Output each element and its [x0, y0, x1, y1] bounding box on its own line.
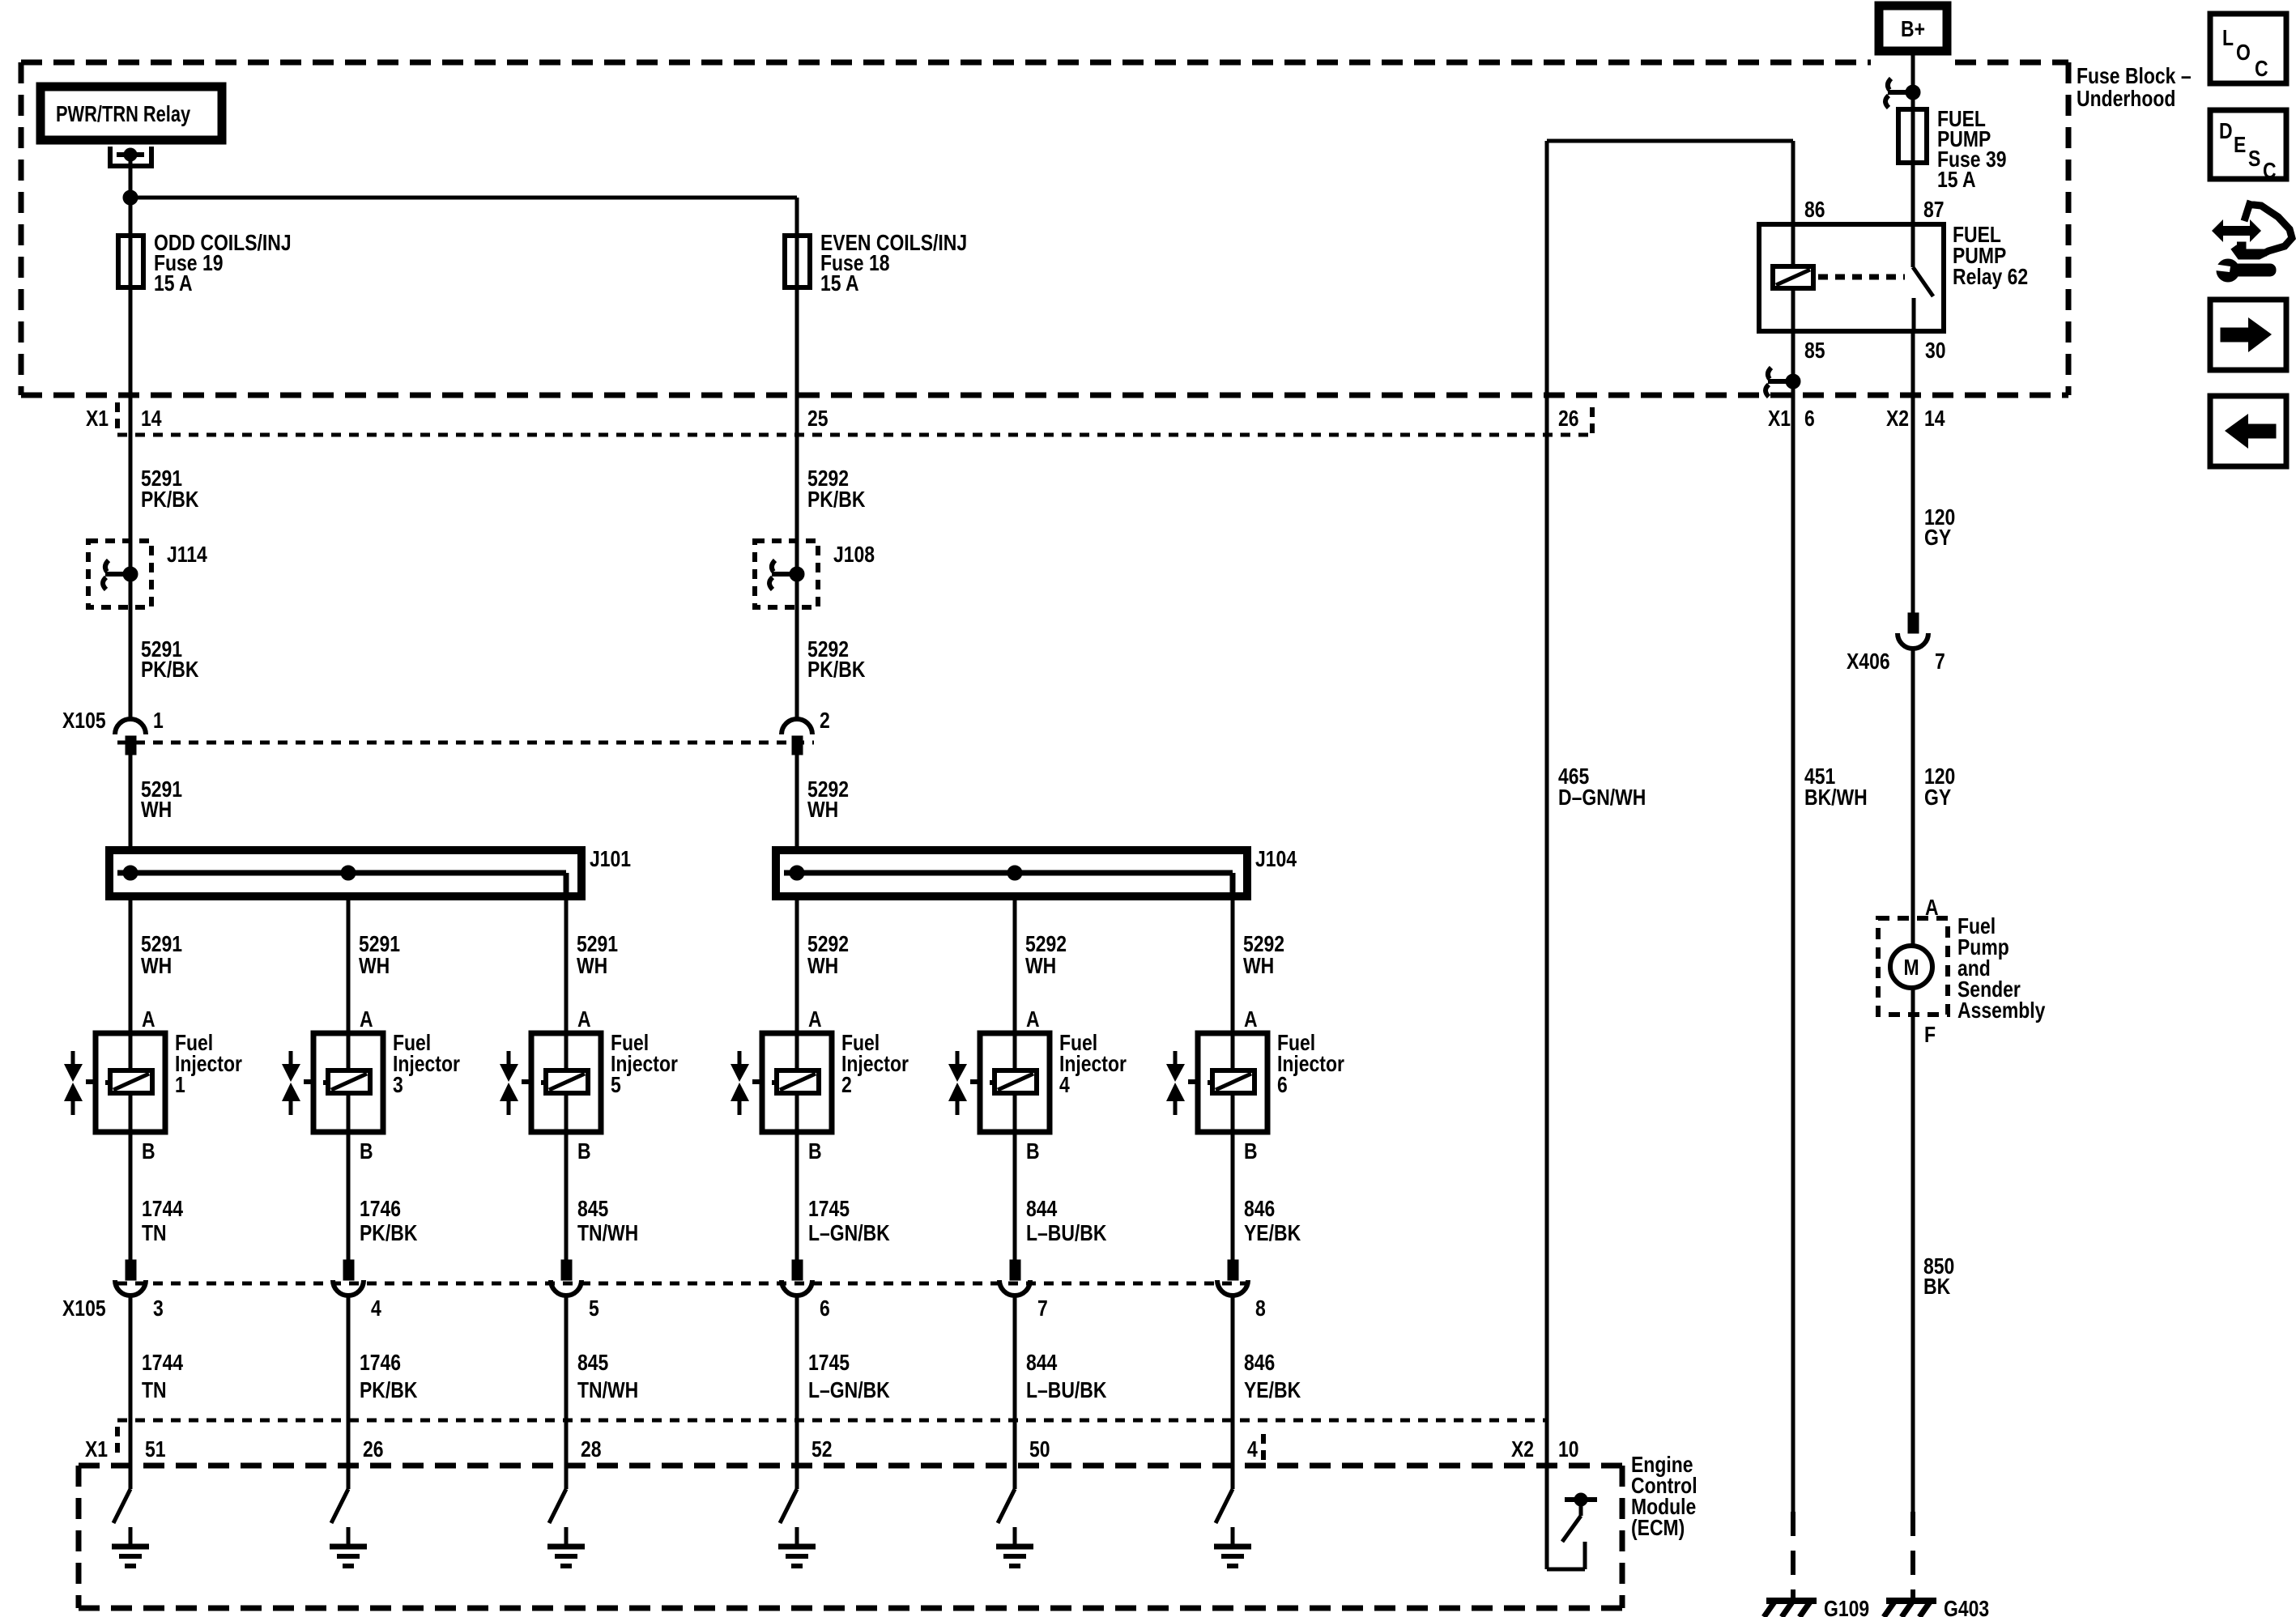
- fuel injector 3 body: [313, 1033, 383, 1132]
- svg-text:87: 87: [1923, 198, 1945, 223]
- svg-text:L–GN/BK: L–GN/BK: [808, 1221, 890, 1246]
- svg-text:B: B: [808, 1139, 822, 1164]
- svg-text:2: 2: [820, 709, 830, 734]
- svg-text:WH: WH: [807, 798, 838, 823]
- svg-text:G403: G403: [1944, 1597, 1989, 1617]
- wire relay 30 to X2-14: [1911, 331, 1915, 395]
- wire 850 BK: [1911, 1015, 1915, 1512]
- svg-text:10: 10: [1558, 1437, 1579, 1462]
- svg-text:B: B: [1244, 1139, 1258, 1164]
- svg-text:15 A: 15 A: [1937, 168, 1976, 193]
- injector 5 coil lead: [541, 1080, 546, 1085]
- svg-text:X1: X1: [86, 406, 109, 432]
- wire 844 L–BU/BK upper label: [1013, 1132, 1017, 1260]
- svg-text:D: D: [2219, 119, 2233, 144]
- svg-text:GY: GY: [1924, 785, 1951, 811]
- svg-text:O: O: [2236, 40, 2251, 66]
- fuel injector 6 body: [1198, 1033, 1267, 1132]
- ground, injector 1 driver: [129, 1527, 133, 1547]
- svg-text:845: 845: [577, 1197, 608, 1222]
- svg-text:Fuse Block –: Fuse Block –: [2077, 64, 2192, 89]
- svg-text:28: 28: [581, 1437, 602, 1462]
- svg-text:7: 7: [1037, 1296, 1048, 1321]
- ground, injector 2 driver: [795, 1527, 799, 1547]
- svg-text:M: M: [1903, 955, 1919, 981]
- svg-text:1744: 1744: [142, 1197, 184, 1222]
- svg-text:B: B: [360, 1139, 373, 1164]
- svg-text:6: 6: [820, 1296, 830, 1321]
- wire 1746 PK/BK upper label: [347, 1132, 351, 1260]
- svg-text:GY: GY: [1924, 526, 1951, 551]
- svg-text:TN/WH: TN/WH: [577, 1221, 638, 1246]
- svg-text:A: A: [142, 1007, 155, 1032]
- icon DESC box: [2210, 110, 2286, 179]
- injector 5 valve symbol: [522, 1079, 531, 1084]
- fuse F39 FUEL PUMP: [1911, 51, 1915, 224]
- svg-text:WH: WH: [359, 954, 390, 979]
- svg-text:X2: X2: [1886, 406, 1909, 432]
- svg-text:B: B: [577, 1139, 591, 1164]
- svg-text:A: A: [808, 1007, 822, 1032]
- svg-text:Assembly: Assembly: [1957, 998, 2046, 1023]
- PWR/TRN relay output pin symbol: [108, 147, 113, 166]
- svg-text:846: 846: [1244, 1197, 1275, 1222]
- injector 6 coil: [1212, 1070, 1254, 1093]
- svg-text:C: C: [2263, 159, 2277, 184]
- relay K62 linkage dashed: [1818, 274, 1905, 280]
- svg-text:WH: WH: [1243, 954, 1274, 979]
- ECM fuel pump driver switch: [1545, 1466, 1549, 1569]
- node B+ battery feed: [1879, 6, 1947, 51]
- wire 529x WH segment into injector 5: [564, 896, 569, 1033]
- svg-text:B: B: [1026, 1139, 1040, 1164]
- svg-text:Relay 62: Relay 62: [1953, 265, 2028, 290]
- svg-text:1: 1: [175, 1073, 185, 1098]
- svg-text:15 A: 15 A: [820, 271, 859, 296]
- svg-text:7: 7: [1935, 649, 1945, 674]
- ECM driver switch, injector 5: [549, 1489, 566, 1523]
- svg-text:5: 5: [589, 1296, 599, 1321]
- connector X105 pin 1: [115, 719, 146, 734]
- wire 529x WH segment into injector 3: [347, 896, 351, 1033]
- wire 5291 PK/BK: [129, 395, 133, 719]
- wire 846 YE/BK upper label: [1231, 1132, 1235, 1260]
- svg-text:A: A: [577, 1007, 591, 1032]
- fuel injector 5 body: [531, 1033, 601, 1132]
- wire 5292 PK/BK: [795, 395, 799, 719]
- wire fuel pump relay control feed: [1547, 139, 1793, 143]
- svg-text:L–BU/BK: L–BU/BK: [1026, 1221, 1107, 1246]
- svg-text:15 A: 15 A: [154, 271, 193, 296]
- svg-text:1746: 1746: [360, 1197, 401, 1222]
- ground, injector 4 driver: [1013, 1527, 1017, 1547]
- svg-text:844: 844: [1026, 1197, 1058, 1222]
- svg-text:PK/BK: PK/BK: [360, 1221, 418, 1246]
- svg-text:PK/BK: PK/BK: [807, 487, 866, 513]
- injector 2 valve symbol: [752, 1079, 762, 1084]
- svg-text:14: 14: [1924, 406, 1945, 432]
- junction block J104: [776, 850, 1247, 896]
- svg-text:5: 5: [611, 1073, 621, 1098]
- svg-text:4: 4: [1059, 1073, 1070, 1098]
- svg-text:844: 844: [1026, 1351, 1058, 1376]
- connector X1 ECM row: [117, 1419, 1547, 1423]
- fuse F19 ODD COILS/INJ: [129, 198, 133, 395]
- injector 5 coil: [546, 1070, 588, 1093]
- svg-text:BK: BK: [1923, 1274, 1951, 1300]
- svg-text:85: 85: [1804, 338, 1825, 364]
- connector X105 pin 8: [1228, 1260, 1238, 1280]
- svg-text:X1: X1: [85, 1437, 108, 1462]
- injector 1 coil lead: [105, 1080, 110, 1085]
- svg-text:X105: X105: [62, 709, 106, 734]
- wire 1745 L–GN/BK upper label: [795, 1132, 799, 1260]
- fuel pump and sender assembly: [1878, 918, 1948, 1015]
- svg-text:J114: J114: [167, 543, 207, 568]
- svg-text:14: 14: [141, 406, 162, 432]
- svg-text:30: 30: [1925, 338, 1946, 364]
- Engine Control Module dashed box: [79, 1463, 1622, 1469]
- svg-text:F: F: [1924, 1023, 1936, 1048]
- ground, injector 5 driver: [564, 1527, 569, 1547]
- svg-text:C: C: [2255, 57, 2268, 82]
- relay K62 switch: [1911, 224, 1915, 267]
- svg-text:26: 26: [1558, 406, 1579, 432]
- svg-text:TN/WH: TN/WH: [577, 1378, 638, 1403]
- splice J108: [755, 541, 818, 607]
- svg-text:A: A: [360, 1007, 373, 1032]
- fuse block underhood dashed enclosure: [21, 60, 1871, 66]
- svg-text:PK/BK: PK/BK: [141, 657, 199, 683]
- icon wrench: [2217, 259, 2239, 282]
- connector X105 pin 6: [792, 1260, 803, 1280]
- splice clip on B+ wire: [1888, 79, 1891, 90]
- svg-text:X406: X406: [1847, 649, 1890, 674]
- wire 845 TN/WH upper label: [564, 1132, 569, 1260]
- relay K62 coil: [1791, 224, 1795, 266]
- wire 529x WH segment into injector 4: [1013, 896, 1017, 1033]
- svg-text:L–GN/BK: L–GN/BK: [808, 1378, 890, 1403]
- injector 4 coil: [995, 1070, 1037, 1093]
- svg-text:G109: G109: [1824, 1597, 1869, 1617]
- ground, injector 6 driver: [1231, 1527, 1235, 1547]
- svg-text:PK/BK: PK/BK: [360, 1378, 418, 1403]
- icon vehicle data link: [2212, 219, 2261, 242]
- svg-text:4: 4: [371, 1296, 381, 1321]
- PWR/TRN Relay label box: [40, 87, 222, 140]
- svg-text:4: 4: [1247, 1437, 1258, 1462]
- injector 3 valve symbol: [304, 1079, 313, 1084]
- ground G403: [1886, 1598, 1936, 1604]
- svg-text:52: 52: [811, 1437, 833, 1462]
- svg-text:1: 1: [153, 709, 164, 734]
- wire 529x WH segment into injector 2: [795, 896, 799, 1033]
- injector 6 coil lead: [1208, 1080, 1212, 1085]
- wire from PWR/TRN relay to coil/inj fuses: [123, 190, 138, 205]
- fuel injector 4 body: [980, 1033, 1050, 1132]
- svg-text:25: 25: [807, 406, 829, 432]
- svg-text:B+: B+: [1901, 17, 1925, 42]
- svg-text:X1: X1: [1768, 406, 1791, 432]
- wire 529x WH segment into injector 1: [129, 896, 133, 1033]
- injector 4 valve symbol: [970, 1079, 980, 1084]
- ECM driver switch, injector 4: [998, 1489, 1015, 1523]
- svg-text:B: B: [142, 1139, 155, 1164]
- svg-text:(ECM): (ECM): [1631, 1516, 1685, 1541]
- relay K62 FUEL PUMP body: [1759, 224, 1944, 331]
- svg-text:6: 6: [1277, 1073, 1288, 1098]
- svg-text:YE/BK: YE/BK: [1244, 1378, 1301, 1403]
- ground, injector 3 driver: [347, 1527, 351, 1547]
- svg-text:TN: TN: [142, 1378, 167, 1403]
- svg-text:846: 846: [1244, 1351, 1275, 1376]
- svg-text:50: 50: [1029, 1437, 1050, 1462]
- svg-text:3: 3: [393, 1073, 403, 1098]
- svg-text:YE/BK: YE/BK: [1244, 1221, 1301, 1246]
- svg-text:TN: TN: [142, 1221, 167, 1246]
- injector 3 coil lead: [323, 1080, 328, 1085]
- icon arrow next: [2210, 300, 2286, 370]
- svg-text:X105: X105: [62, 1296, 106, 1321]
- svg-text:1745: 1745: [808, 1351, 850, 1376]
- wire relay 85 to X1-6: [1791, 331, 1795, 395]
- connector X105 pin 7: [1010, 1260, 1020, 1280]
- svg-text:2: 2: [841, 1073, 852, 1098]
- svg-text:3: 3: [153, 1296, 164, 1321]
- svg-text:WH: WH: [807, 954, 838, 979]
- svg-text:L: L: [2222, 26, 2234, 51]
- fuse F18 EVEN COILS/INJ: [795, 198, 799, 395]
- injector 1 valve symbol: [86, 1079, 96, 1084]
- svg-text:Underhood: Underhood: [2077, 87, 2175, 112]
- svg-text:A: A: [1026, 1007, 1040, 1032]
- ECM driver switch, injector 2: [780, 1489, 797, 1523]
- svg-text:8: 8: [1255, 1296, 1266, 1321]
- svg-text:J104: J104: [1255, 847, 1297, 872]
- svg-text:E: E: [2234, 133, 2246, 158]
- ECM driver switch, injector 6: [1216, 1489, 1233, 1523]
- svg-text:X2: X2: [1511, 1437, 1534, 1462]
- svg-text:WH: WH: [1025, 954, 1056, 979]
- svg-text:51: 51: [145, 1437, 166, 1462]
- svg-text:WH: WH: [141, 798, 172, 823]
- svg-text:WH: WH: [577, 954, 607, 979]
- svg-text:PWR/TRN Relay: PWR/TRN Relay: [56, 101, 190, 126]
- connector X105 pin 2: [782, 719, 812, 734]
- svg-text:J101: J101: [590, 847, 631, 872]
- splice J114: [88, 541, 151, 607]
- ECM driver switch, injector 3: [331, 1489, 348, 1523]
- svg-text:D–GN/WH: D–GN/WH: [1558, 785, 1646, 811]
- icon LOC box: [2210, 14, 2286, 83]
- svg-text:26: 26: [363, 1437, 384, 1462]
- connector X406 pin 7: [1908, 613, 1919, 633]
- injector 6 valve symbol: [1188, 1079, 1198, 1084]
- connector X105 pin 3: [126, 1260, 136, 1280]
- svg-text:A: A: [1244, 1007, 1258, 1032]
- fuel injector 2 body: [762, 1033, 832, 1132]
- svg-text:1745: 1745: [808, 1197, 850, 1222]
- svg-text:1746: 1746: [360, 1351, 401, 1376]
- svg-text:WH: WH: [141, 954, 172, 979]
- fuel injector 1 body: [96, 1033, 165, 1132]
- svg-text:6: 6: [1804, 406, 1815, 432]
- svg-text:845: 845: [577, 1351, 608, 1376]
- svg-text:J108: J108: [833, 543, 875, 568]
- wire 529x WH segment into injector 6: [1231, 896, 1235, 1033]
- harness connector line (top): [117, 433, 1592, 437]
- svg-text:L–BU/BK: L–BU/BK: [1026, 1378, 1107, 1403]
- splice clip on 451 wire: [1768, 368, 1771, 379]
- svg-text:PK/BK: PK/BK: [807, 657, 866, 683]
- injector 2 coil lead: [772, 1080, 777, 1085]
- icon arrow previous: [2210, 396, 2286, 466]
- junction block J101: [109, 850, 581, 896]
- connector X105 pin 5: [561, 1260, 572, 1280]
- injector 2 coil: [777, 1070, 819, 1093]
- svg-text:BK/WH: BK/WH: [1804, 785, 1868, 811]
- svg-text:1744: 1744: [142, 1351, 184, 1376]
- wire 1744 TN upper label: [129, 1132, 133, 1260]
- connector X105 pin 4: [343, 1260, 354, 1280]
- injector 1 coil: [110, 1070, 152, 1093]
- ground G109: [1766, 1598, 1817, 1604]
- injector 3 coil: [328, 1070, 370, 1093]
- ECM driver switch, injector 1: [113, 1489, 130, 1523]
- svg-text:86: 86: [1804, 198, 1825, 223]
- svg-text:PK/BK: PK/BK: [141, 487, 199, 513]
- injector 4 coil lead: [990, 1080, 995, 1085]
- svg-text:S: S: [2248, 147, 2260, 172]
